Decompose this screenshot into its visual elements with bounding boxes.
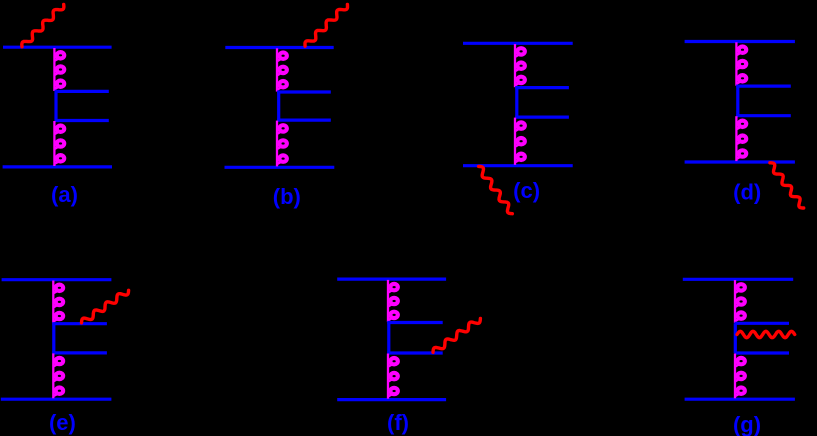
diagram (f) internal vertical quark line	[387, 323, 390, 354]
diagram (c) internal quark line 1	[515, 86, 569, 89]
diagram (c) top quark line	[463, 42, 573, 45]
diagram (e) photon	[82, 290, 129, 323]
diagram (a) bottom quark line	[3, 165, 112, 168]
diagram (e) bottom quark line	[1, 398, 112, 401]
svg-text:(c): (c)	[513, 178, 540, 203]
diagram (g) lower gluon	[735, 354, 745, 399]
svg-text:(d): (d)	[733, 180, 761, 205]
diagram (b) photon	[305, 4, 348, 46]
svg-text:(g): (g)	[733, 412, 761, 436]
diagram (a) internal quark line 1	[55, 90, 109, 93]
diagram (a) internal quark line 2	[55, 119, 109, 122]
diagram (f) lower gluon	[388, 354, 398, 399]
svg-text:(b): (b)	[273, 184, 301, 209]
diagram (f) photon	[433, 319, 480, 353]
diagram (b) internal vertical quark line	[277, 92, 280, 120]
diagram (c) upper gluon	[515, 44, 525, 87]
diagram (b) internal quark line 2	[277, 118, 331, 121]
diagram (e) top quark line	[2, 278, 112, 281]
diagram (d) photon	[770, 163, 804, 208]
svg-text:(a): (a)	[51, 182, 78, 207]
diagram (b) internal quark line 1	[277, 90, 331, 93]
diagram (e) internal quark line 1	[52, 322, 107, 325]
diagram (c) bottom quark line	[463, 164, 573, 167]
diagram (e) lower gluon	[53, 353, 63, 398]
diagram (f) top quark line	[337, 278, 446, 281]
diagram (g) internal quark line 1	[735, 322, 790, 325]
diagram (e) internal vertical quark line	[52, 324, 55, 353]
diagram (f) upper gluon	[388, 280, 398, 322]
diagram (c) lower gluon	[515, 118, 525, 165]
diagram (a) top quark line	[3, 46, 112, 49]
diagram (d) bottom quark line	[685, 160, 795, 163]
svg-text:(f): (f)	[387, 410, 409, 435]
diagram (c) internal quark line 2	[515, 115, 569, 118]
diagram (a) internal vertical quark line	[54, 91, 57, 120]
diagram (f) internal quark line 1	[387, 321, 443, 324]
diagram (b) bottom quark line	[225, 166, 335, 169]
diagram (b) top quark line	[225, 46, 333, 49]
diagram (f) internal quark line 2	[387, 351, 443, 354]
diagram (b) upper gluon	[277, 48, 287, 91]
diagram (e) internal quark line 2	[52, 351, 107, 354]
diagram (g) bottom quark line	[685, 398, 795, 401]
diagram (g) upper gluon	[735, 280, 745, 323]
diagram (g) top quark line	[683, 278, 793, 281]
diagram (a) upper gluon	[54, 48, 64, 91]
diagram (d) internal vertical quark line	[736, 86, 739, 116]
diagram (e) upper gluon	[53, 281, 63, 324]
diagram (c) photon	[479, 166, 513, 213]
diagram (c) internal vertical quark line	[515, 88, 518, 118]
diagram (g) internal quark line 2	[735, 351, 790, 354]
diagram (d) internal quark line 1	[736, 84, 791, 87]
svg-text:(e): (e)	[49, 410, 76, 435]
diagram (g) photon	[737, 331, 795, 337]
diagram (g) internal vertical quark line	[734, 323, 737, 353]
diagram (d) upper gluon	[736, 42, 746, 85]
diagram (a) photon	[22, 4, 64, 46]
diagram (a) lower gluon	[54, 121, 64, 166]
diagram (b) lower gluon	[277, 121, 287, 167]
diagram (d) lower gluon	[736, 116, 746, 161]
diagram (d) top quark line	[685, 40, 795, 43]
diagram (d) internal quark line 2	[736, 114, 791, 117]
diagram (f) bottom quark line	[337, 398, 446, 401]
